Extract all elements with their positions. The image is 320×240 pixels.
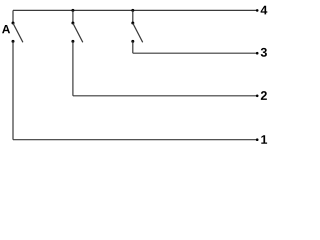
switch S2 blade — [73, 23, 83, 42]
switch S1 bottom terminal dot — [12, 40, 15, 43]
switch S3 pivot dot — [131, 22, 134, 25]
wire top bus (node 4) — [13, 9, 258, 11]
label A — [2, 25, 10, 33]
label 2 — [261, 91, 267, 100]
wire S3 down to node 3 — [132, 41, 134, 53]
wire S2 down to node 2 — [72, 41, 74, 95]
label 1 — [261, 135, 267, 144]
wire node 1 horizontal — [13, 139, 258, 141]
node 1 terminal dot — [256, 138, 259, 141]
wire stub bus to switch S1 pivot — [12, 10, 14, 23]
wire node 2 horizontal — [73, 95, 258, 97]
switch S1 pivot dot — [12, 22, 15, 25]
switch S3 bottom terminal dot — [131, 40, 134, 43]
wire node 3 horizontal — [133, 52, 258, 54]
node 4 terminal dot — [256, 9, 259, 12]
label 4 — [261, 6, 268, 15]
switch S2 bottom terminal dot — [71, 40, 74, 43]
switch S1 blade — [13, 23, 23, 42]
node 2 terminal dot — [256, 95, 259, 98]
junction dot bus / switch S3 — [131, 9, 134, 12]
wire stub bus to switch S3 pivot — [132, 10, 134, 23]
junction dot bus / switch S2 — [71, 9, 74, 12]
wire S1 down to node 1 — [12, 41, 14, 139]
wire stub bus to switch S2 pivot — [72, 10, 74, 23]
node 3 terminal dot — [256, 52, 259, 55]
label 3 — [261, 48, 267, 57]
switch S2 pivot dot — [71, 22, 74, 25]
switch S3 blade — [133, 23, 143, 42]
